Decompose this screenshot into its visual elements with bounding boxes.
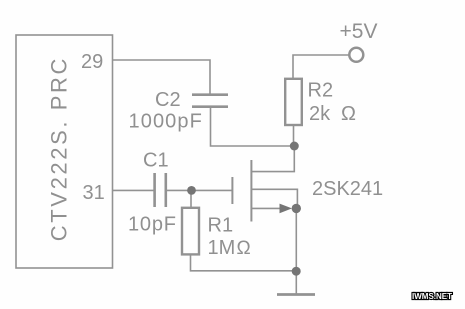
svg-text:1000pF: 1000pF <box>129 111 203 133</box>
svg-text:Ω: Ω <box>341 103 356 125</box>
capacitor C1 <box>155 173 166 207</box>
ground <box>277 293 315 296</box>
wire node A to drain <box>251 146 294 172</box>
wire source stub middle <box>251 189 297 208</box>
svg-text:C1: C1 <box>143 150 169 172</box>
svg-text:2SK241: 2SK241 <box>312 178 383 200</box>
wire source node to ground <box>295 208 297 294</box>
node A junction dot <box>290 142 299 151</box>
svg-text:Ω: Ω <box>237 238 251 259</box>
svg-text:2k: 2k <box>309 103 331 125</box>
svg-text:C2: C2 <box>155 89 181 111</box>
wire pin29 horizontal <box>113 60 211 94</box>
wire +5V to R2 top <box>293 55 349 79</box>
node C junction dot <box>292 267 301 276</box>
resistor R1 <box>182 208 199 255</box>
svg-text:10pF: 10pF <box>128 213 177 235</box>
wire R2 bottom to node A <box>293 125 295 146</box>
resistor R2 <box>285 79 302 125</box>
capacitor C2 <box>192 95 228 107</box>
wire node D to R1 top <box>190 190 192 207</box>
IC U1 box CTV222S.PRC <box>16 35 113 268</box>
wire R1 bottom to node C <box>191 254 297 270</box>
svg-text:31: 31 <box>83 182 105 204</box>
terminal +5V circle <box>349 48 363 62</box>
transistor Q1 gate bar <box>231 177 233 204</box>
node D junction dot <box>187 186 196 195</box>
svg-text:1M: 1M <box>208 237 236 259</box>
svg-text:29: 29 <box>81 51 103 73</box>
arrowhead on substrate stub <box>280 204 293 214</box>
wire pin31 to C1 <box>113 189 155 191</box>
svg-text:+5V: +5V <box>340 20 378 43</box>
svg-text:CTV222S. PRC: CTV222S. PRC <box>47 56 72 241</box>
svg-text:IWMS.NET: IWMS.NET <box>412 292 452 301</box>
wire substrate arrow stub <box>251 207 281 209</box>
node B junction dot <box>292 204 301 213</box>
svg-text:R2: R2 <box>308 80 334 102</box>
svg-text:R1: R1 <box>208 215 234 237</box>
wire C2 bottom to node A <box>211 107 295 146</box>
transistor Q1 2SK241 channel <box>250 160 252 222</box>
wire C1 to gate bar <box>166 189 233 191</box>
